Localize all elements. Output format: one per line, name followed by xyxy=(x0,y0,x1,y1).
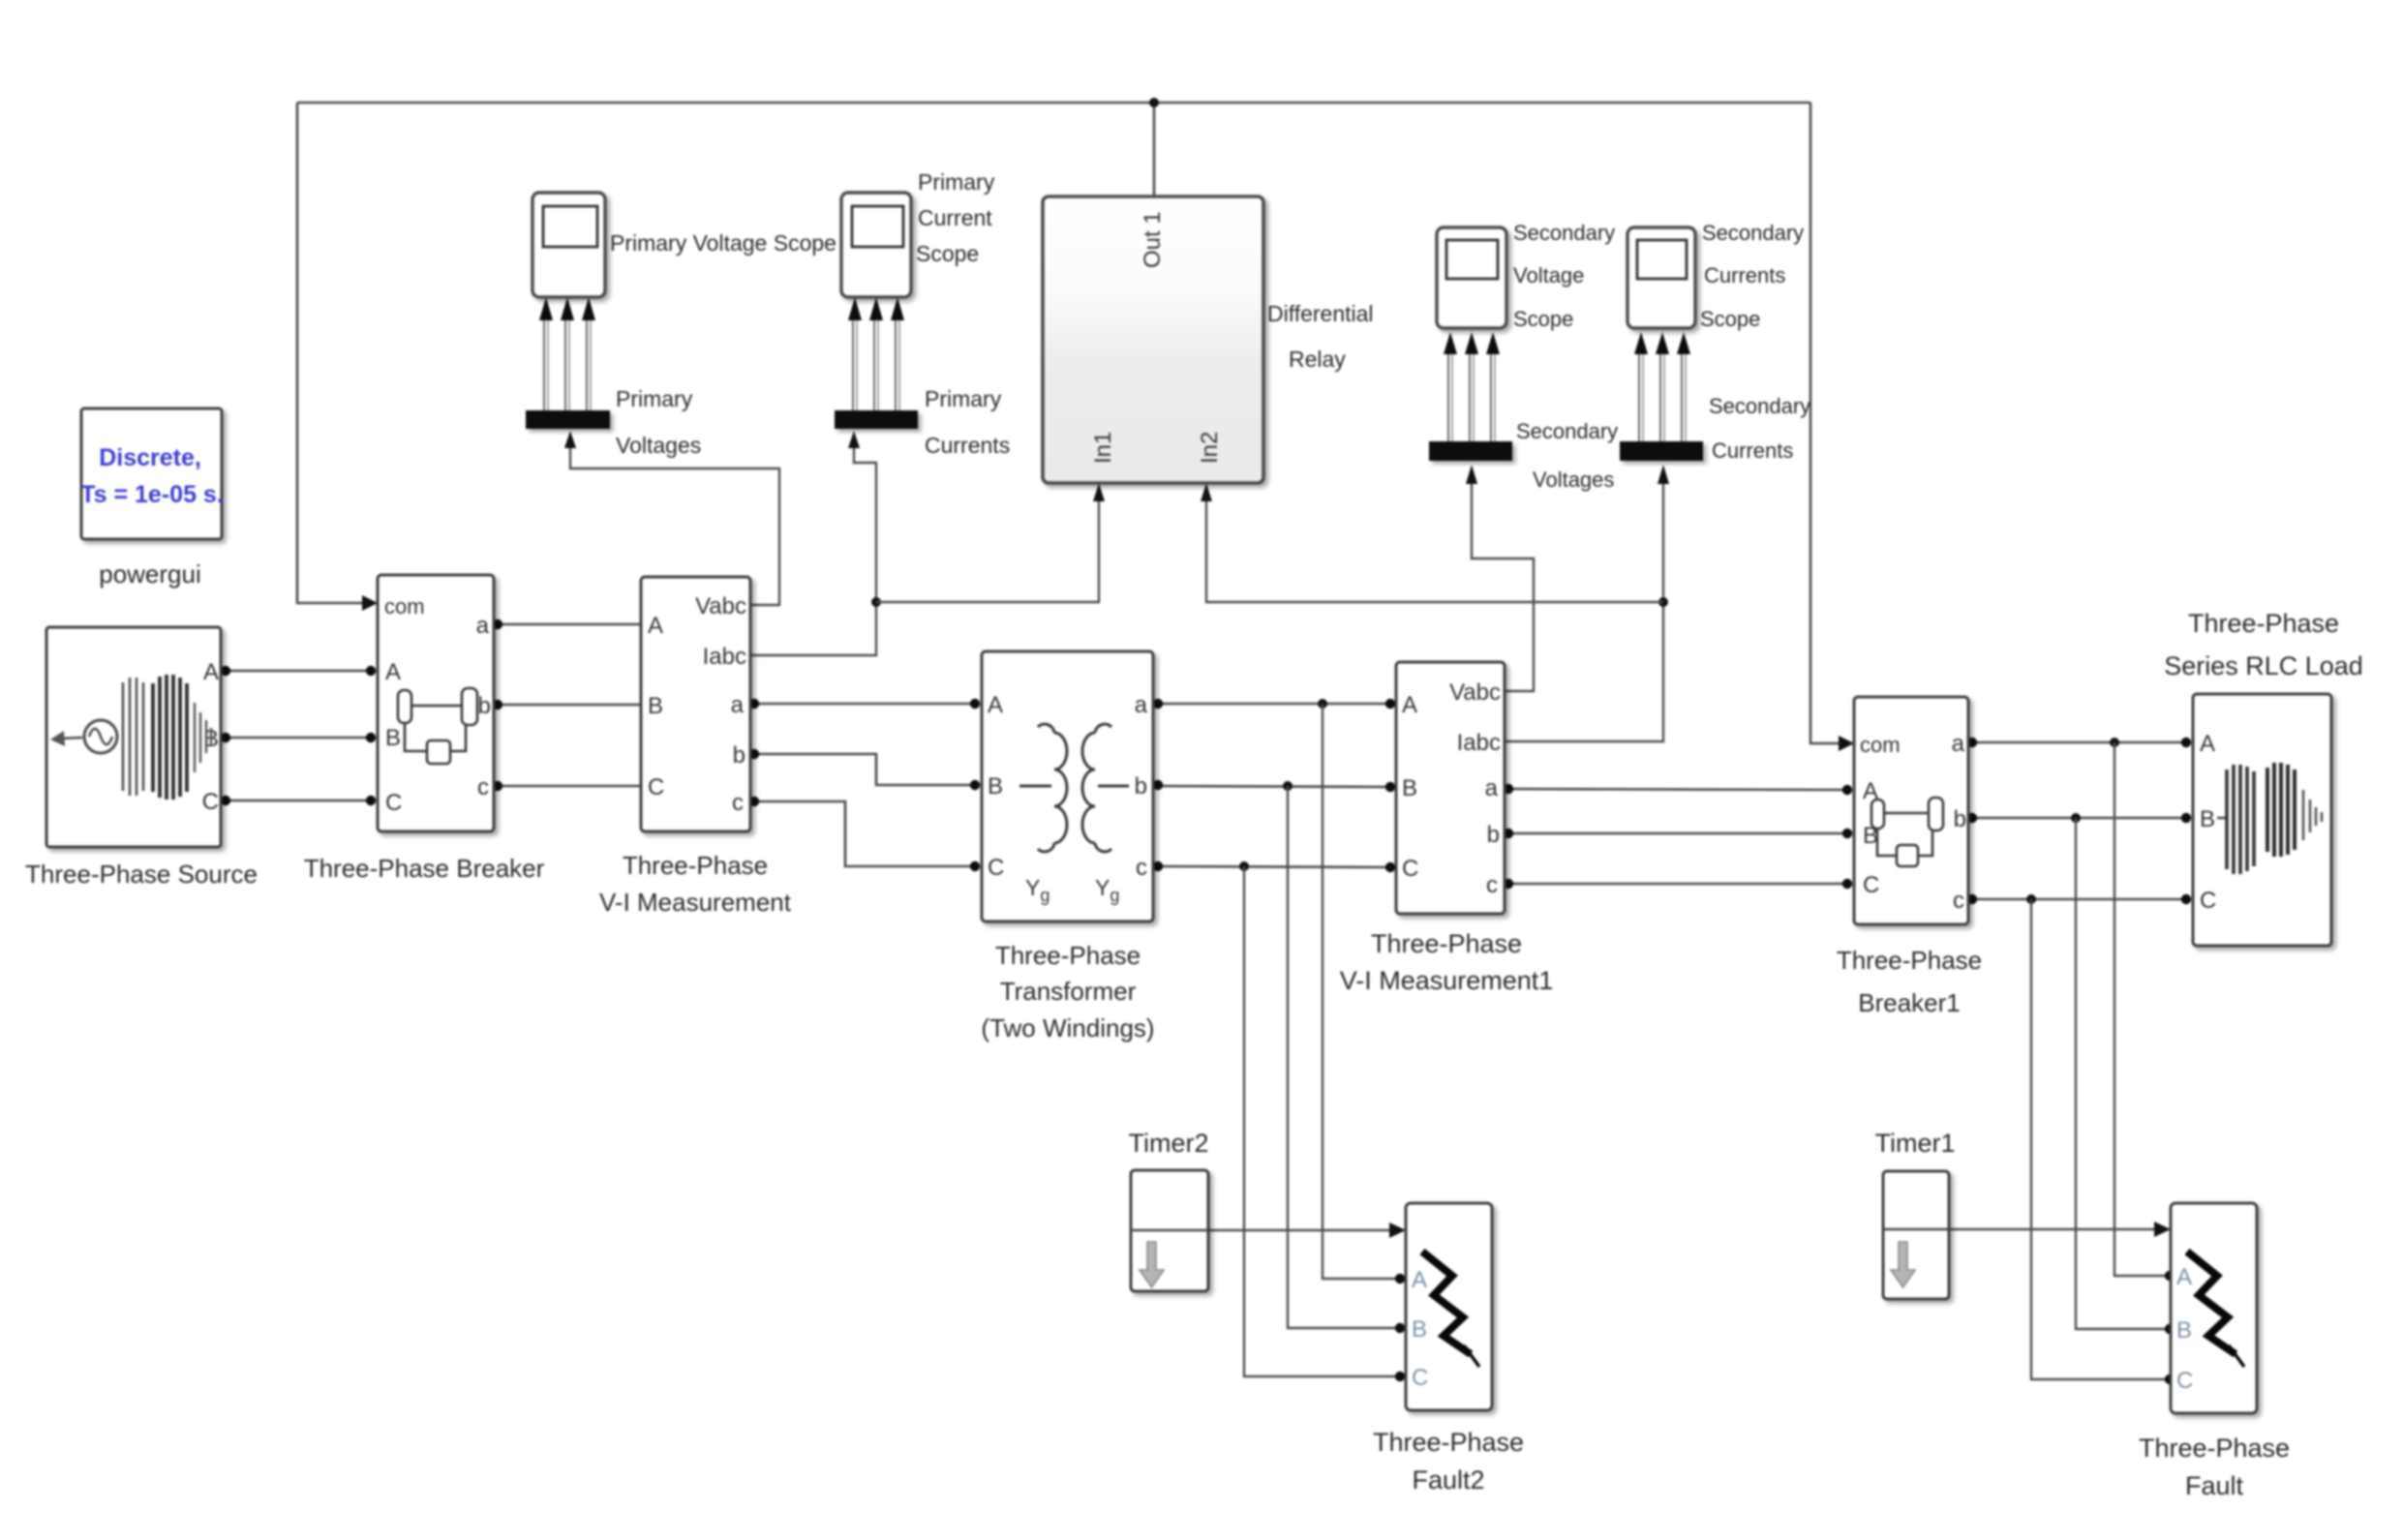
svg-text:V-I Measurement: V-I Measurement xyxy=(599,888,792,917)
svg-text:Voltages: Voltages xyxy=(1533,468,1614,492)
svg-text:C: C xyxy=(988,855,1004,881)
Three-Phase V-I Measurement block xyxy=(641,577,750,831)
label: Differential Relay xyxy=(1267,301,1374,372)
svg-text:Three-Phase: Three-Phase xyxy=(623,851,768,880)
label: Secondary Voltages xyxy=(1516,419,1618,492)
label: Three-Phase Breaker1 xyxy=(1837,946,1982,1017)
svg-text:Voltage: Voltage xyxy=(1513,263,1584,287)
wire: trip bus left drop to Three-Phase Breaker com xyxy=(297,103,378,611)
wire: Breaker b to V-I Measurement B xyxy=(496,704,641,707)
svg-text:Three-Phase: Three-Phase xyxy=(1837,946,1982,975)
svg-text:Current: Current xyxy=(918,205,992,230)
svg-text:Out 1: Out 1 xyxy=(1140,211,1166,268)
svg-text:c: c xyxy=(1136,855,1147,881)
svg-text:a: a xyxy=(1485,775,1499,801)
svg-text:Breaker1: Breaker1 xyxy=(1858,988,1961,1017)
svg-text:b: b xyxy=(478,693,491,719)
Primary Voltages bus (mux) xyxy=(526,410,610,429)
wire: Transformer a to V-I Measurement1 A xyxy=(1155,703,1392,706)
svg-text:C: C xyxy=(1402,856,1418,882)
label: Three-Phase Fault2 xyxy=(1373,1428,1524,1495)
wire: V-I Measurement1 b to Breaker1 B xyxy=(1506,832,1850,835)
svg-text:c: c xyxy=(477,774,489,800)
Three-Phase Fault block xyxy=(2171,1203,2257,1413)
svg-text:B: B xyxy=(2200,806,2215,832)
wire: Timer1 output to Fault trigger xyxy=(1949,1222,2171,1237)
label: powergui xyxy=(99,559,201,589)
svg-text:c: c xyxy=(732,790,744,816)
svg-text:B: B xyxy=(648,693,663,719)
svg-text:A: A xyxy=(648,613,663,639)
wire: V-I Measurement1 c to Breaker1 C xyxy=(1506,883,1850,886)
wire: V-I Measurement1 Vabc up to Secondary Voltages bus xyxy=(1466,465,1534,691)
Timer2 block xyxy=(1131,1170,1208,1291)
svg-text:c: c xyxy=(1953,888,1964,914)
wire: V-I Measurement1 Iabc up to Secondary Currents bus xyxy=(1505,465,1669,741)
Secondary Currents bus (mux) xyxy=(1620,441,1703,461)
svg-text:a: a xyxy=(1135,692,1148,718)
svg-text:Scope: Scope xyxy=(1700,307,1760,331)
svg-text:Primary: Primary xyxy=(616,386,693,411)
svg-text:Iabc: Iabc xyxy=(703,644,746,670)
Three-Phase V-I Measurement1 block xyxy=(1396,662,1505,914)
wire: branch down to Three-Phase Fault C xyxy=(2031,899,2167,1379)
svg-text:com: com xyxy=(1860,733,1901,757)
wire: secondary currents branch to Differential Relay In2 xyxy=(1201,483,1663,602)
svg-text:c: c xyxy=(1486,872,1498,898)
junction: transformer c branch to Fault2 C xyxy=(1239,861,1249,871)
svg-text:Three-Phase: Three-Phase xyxy=(1373,1428,1524,1457)
Primary Current Scope block xyxy=(841,193,911,297)
junction: Out1 on trip bus xyxy=(1149,98,1159,107)
wire: Breaker1 a to RLC Load A xyxy=(1970,741,2189,744)
svg-text:Timer2: Timer2 xyxy=(1128,1129,1208,1158)
svg-text:A: A xyxy=(2200,731,2215,757)
svg-text:A: A xyxy=(988,692,1003,718)
wire: Breaker c to V-I Measurement C xyxy=(496,785,641,788)
junction: transformer b branch to Fault2 B xyxy=(1283,781,1293,791)
svg-text:C: C xyxy=(1863,872,1879,898)
svg-text:a: a xyxy=(1952,731,1965,757)
wire: Source A to Breaker A xyxy=(224,670,372,673)
svg-text:Scope: Scope xyxy=(1513,307,1573,331)
wire: branch down to Three-Phase Fault2 A xyxy=(1323,704,1397,1279)
wire: branch down to Three-Phase Fault2 C xyxy=(1244,866,1397,1376)
svg-text:Secondary: Secondary xyxy=(1709,394,1810,418)
svg-text:Three-Phase: Three-Phase xyxy=(1371,929,1522,958)
wire: trip bus right drop to Three-Phase Breaker1 com xyxy=(1810,103,1854,751)
junction: transformer a branch to Fault2 A xyxy=(1318,699,1327,709)
svg-text:C: C xyxy=(2176,1368,2193,1394)
wire: branch down to Three-Phase Fault B xyxy=(2076,818,2167,1329)
svg-text:C: C xyxy=(1412,1365,1428,1391)
svg-text:B: B xyxy=(2176,1317,2192,1344)
svg-text:a: a xyxy=(731,692,745,718)
wire: Secondary Voltages bus to Secondary Voltage Scope (3 signals) xyxy=(1444,332,1500,441)
junction: breaker1 a branch to Fault A xyxy=(2110,738,2119,747)
wire: Primary Currents bus to Primary Current Scope (3 signals) xyxy=(848,297,904,410)
junction: Iabc branch to relay In2 xyxy=(1658,597,1668,607)
wire: V-I Measurement c to Transformer C xyxy=(750,801,978,866)
label: Primary Current Scope xyxy=(916,169,995,266)
svg-text:Three-Phase Breaker: Three-Phase Breaker xyxy=(304,854,545,883)
svg-text:a: a xyxy=(476,613,490,639)
wire: Primary Voltages bus to Primary Voltage Scope (3 signals) xyxy=(539,297,595,410)
Secondary Voltage Scope block xyxy=(1437,227,1506,328)
label: Secondary Currents xyxy=(1709,394,1810,463)
label: Secondary Currents Scope xyxy=(1700,221,1804,331)
svg-text:Three-Phase Source: Three-Phase Source xyxy=(25,860,258,889)
svg-text:B: B xyxy=(1412,1316,1427,1343)
svg-text:b: b xyxy=(1487,822,1500,848)
label: Primary Currents xyxy=(925,386,1010,458)
Primary Currents bus (mux) xyxy=(835,410,918,429)
junction: breaker1 b branch to Fault B xyxy=(2071,813,2081,823)
Timer1 block xyxy=(1883,1171,1949,1299)
svg-text:Scope: Scope xyxy=(916,241,979,266)
svg-text:B: B xyxy=(988,773,1003,800)
svg-text:Fault: Fault xyxy=(2185,1471,2244,1500)
label: Three-Phase Fault xyxy=(2139,1434,2290,1500)
wire: V-I Measurement Vabc up to Primary Voltages bus xyxy=(564,431,779,605)
svg-text:b: b xyxy=(1954,806,1966,832)
svg-text:A: A xyxy=(2176,1264,2192,1290)
svg-text:com: com xyxy=(384,594,425,619)
Three-Phase Transformer (Two Windings) block xyxy=(982,651,1153,921)
label: Three-Phase Breaker xyxy=(304,854,545,883)
svg-text:Three-Phase: Three-Phase xyxy=(995,941,1141,970)
svg-text:Secondary: Secondary xyxy=(1702,221,1804,245)
svg-text:A: A xyxy=(1402,692,1417,718)
svg-text:Timer1: Timer1 xyxy=(1874,1129,1955,1158)
svg-text:Fault2: Fault2 xyxy=(1412,1465,1484,1495)
wire: Transformer c to V-I Measurement1 C xyxy=(1155,866,1392,867)
svg-text:Currents: Currents xyxy=(1712,438,1793,463)
svg-text:(Two Windings): (Two Windings) xyxy=(981,1013,1154,1042)
Three-Phase Source block xyxy=(46,627,221,847)
svg-text:A: A xyxy=(203,659,219,685)
wire: Transformer b to V-I Measurement1 B xyxy=(1155,786,1392,787)
wire: V-I Measurement Iabc up to Primary Currents bus xyxy=(750,431,876,655)
svg-text:A: A xyxy=(1412,1267,1427,1293)
svg-text:B: B xyxy=(385,725,401,751)
svg-text:Relay: Relay xyxy=(1289,347,1346,372)
svg-text:b: b xyxy=(1135,773,1147,800)
wire: Timer2 output to Fault2 trigger xyxy=(1208,1223,1406,1238)
svg-text:C: C xyxy=(385,790,402,816)
junction: Iabc branch to relay In1 xyxy=(871,597,881,607)
svg-text:Primary Voltage Scope: Primary Voltage Scope xyxy=(610,230,836,256)
svg-text:C: C xyxy=(202,789,219,815)
svg-text:Series RLC Load: Series RLC Load xyxy=(2164,651,2363,680)
label: Timer2 xyxy=(1128,1129,1208,1158)
label: Three-Phase V-I Measurement xyxy=(599,851,792,917)
svg-text:Vabc: Vabc xyxy=(695,593,746,619)
wire: Source B to Breaker B xyxy=(224,737,372,740)
label: Three-Phase Source xyxy=(25,860,258,889)
svg-text:powergui: powergui xyxy=(99,559,201,589)
label: Primary Voltage Scope xyxy=(610,230,836,256)
svg-text:Primary: Primary xyxy=(925,386,1002,411)
svg-text:C: C xyxy=(648,774,664,800)
wire: branch down to Three-Phase Fault2 B xyxy=(1288,786,1397,1328)
Secondary Currents Scope block xyxy=(1627,227,1695,328)
port dots on signal connections xyxy=(221,619,2191,1384)
svg-text:Secondary: Secondary xyxy=(1513,221,1615,245)
svg-text:Transformer: Transformer xyxy=(1000,977,1137,1006)
label: Three-Phase Transformer (Two Windings) xyxy=(981,941,1154,1042)
svg-text:V-I Measurement1: V-I Measurement1 xyxy=(1340,966,1554,995)
svg-text:A: A xyxy=(385,659,401,685)
Three-Phase Breaker1 block xyxy=(1854,697,1968,924)
wire: Secondary Currents bus to Secondary Currents Scope (3 signals) xyxy=(1634,332,1690,441)
svg-text:Voltages: Voltages xyxy=(616,433,701,458)
svg-text:Three-Phase: Three-Phase xyxy=(2139,1434,2290,1463)
svg-text:In2: In2 xyxy=(1197,432,1223,464)
svg-text:b: b xyxy=(733,742,745,769)
label: Primary Voltages xyxy=(616,386,701,458)
wire: Breaker1 b to RLC Load B xyxy=(1970,817,2189,820)
junction: breaker1 c branch to Fault C xyxy=(2026,894,2036,904)
wire: primary currents branch to Differential Relay In1 xyxy=(876,483,1105,602)
svg-text:Discrete,: Discrete, xyxy=(99,444,201,471)
Three-Phase Fault2 block xyxy=(1406,1203,1492,1410)
svg-text:Secondary: Secondary xyxy=(1516,419,1618,443)
label: Secondary Voltage Scope xyxy=(1513,221,1615,331)
label: Three-Phase Series RLC Load xyxy=(2164,609,2363,680)
svg-text:Currents: Currents xyxy=(1704,263,1785,287)
label: Timer1 xyxy=(1874,1129,1955,1158)
wire: V-I Measurement b to Transformer B xyxy=(750,754,978,785)
Three-Phase Breaker block xyxy=(378,575,494,831)
Secondary Voltages bus (mux) xyxy=(1429,441,1512,461)
wire: Differential Relay Out1 up to trip bus xyxy=(1153,103,1156,196)
wire: Breaker a to V-I Measurement A xyxy=(496,623,641,626)
svg-text:Currents: Currents xyxy=(925,433,1010,458)
svg-text:Primary: Primary xyxy=(918,169,995,195)
svg-text:Three-Phase: Three-Phase xyxy=(2188,609,2339,638)
svg-text:Ts = 1e-05 s.: Ts = 1e-05 s. xyxy=(80,481,224,508)
Primary Voltage Scope block xyxy=(532,193,605,297)
svg-text:Vabc: Vabc xyxy=(1449,679,1501,706)
wire: trip bus top horizontal from Out1 to both breakers xyxy=(297,102,1810,105)
Three-Phase Series RLC Load block xyxy=(2193,694,2331,946)
svg-text:C: C xyxy=(2200,888,2216,914)
Differential Relay block xyxy=(1043,196,1263,483)
wire: V-I Measurement a to Transformer A xyxy=(750,703,978,706)
wire: Source C to Breaker C xyxy=(224,800,372,802)
svg-text:B: B xyxy=(1402,775,1417,801)
svg-text:In1: In1 xyxy=(1090,432,1116,464)
wire: Breaker1 c to RLC Load C xyxy=(1970,898,2189,901)
powergui block xyxy=(80,408,224,539)
svg-text:Differential: Differential xyxy=(1267,301,1374,326)
svg-text:Iabc: Iabc xyxy=(1457,730,1501,756)
label: Three-Phase V-I Measurement1 xyxy=(1340,929,1554,995)
wire: V-I Measurement1 a to Breaker1 A xyxy=(1506,789,1850,790)
wire: branch down to Three-Phase Fault A xyxy=(2114,742,2167,1276)
